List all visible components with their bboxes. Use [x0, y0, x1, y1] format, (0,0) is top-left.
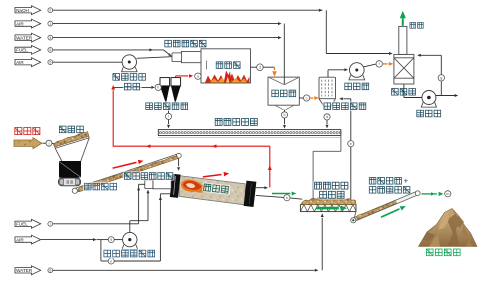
- svg-text:AIR: AIR: [16, 237, 24, 242]
- svg-text:NaOH: NaOH: [16, 8, 29, 13]
- svg-text:AIR: AIR: [16, 60, 24, 65]
- svg-text:2: 2: [49, 9, 51, 13]
- svg-text:k: k: [286, 196, 288, 200]
- svg-text:7: 7: [49, 222, 51, 226]
- svg-text:8: 8: [49, 269, 51, 273]
- svg-text:FUEL: FUEL: [16, 222, 28, 227]
- svg-text:WATER: WATER: [16, 268, 33, 273]
- svg-text:9: 9: [110, 238, 112, 242]
- svg-text:AIR: AIR: [16, 21, 24, 26]
- svg-text:+: +: [404, 177, 409, 186]
- svg-text:n: n: [110, 259, 112, 263]
- svg-text:c: c: [306, 96, 308, 100]
- svg-text:j: j: [48, 142, 50, 146]
- svg-text:1: 1: [49, 22, 51, 26]
- svg-text:5: 5: [49, 48, 51, 52]
- svg-text:WATER: WATER: [16, 35, 33, 40]
- svg-text:m: m: [446, 192, 449, 196]
- svg-text:h: h: [157, 86, 159, 90]
- svg-text:3: 3: [259, 66, 261, 70]
- svg-text:b: b: [283, 113, 285, 117]
- svg-text:FUEL: FUEL: [16, 48, 28, 53]
- svg-text:g: g: [440, 76, 442, 80]
- svg-text:4: 4: [49, 36, 51, 40]
- svg-text:d: d: [326, 115, 328, 119]
- svg-text:6: 6: [49, 61, 51, 65]
- svg-text:e: e: [350, 142, 352, 146]
